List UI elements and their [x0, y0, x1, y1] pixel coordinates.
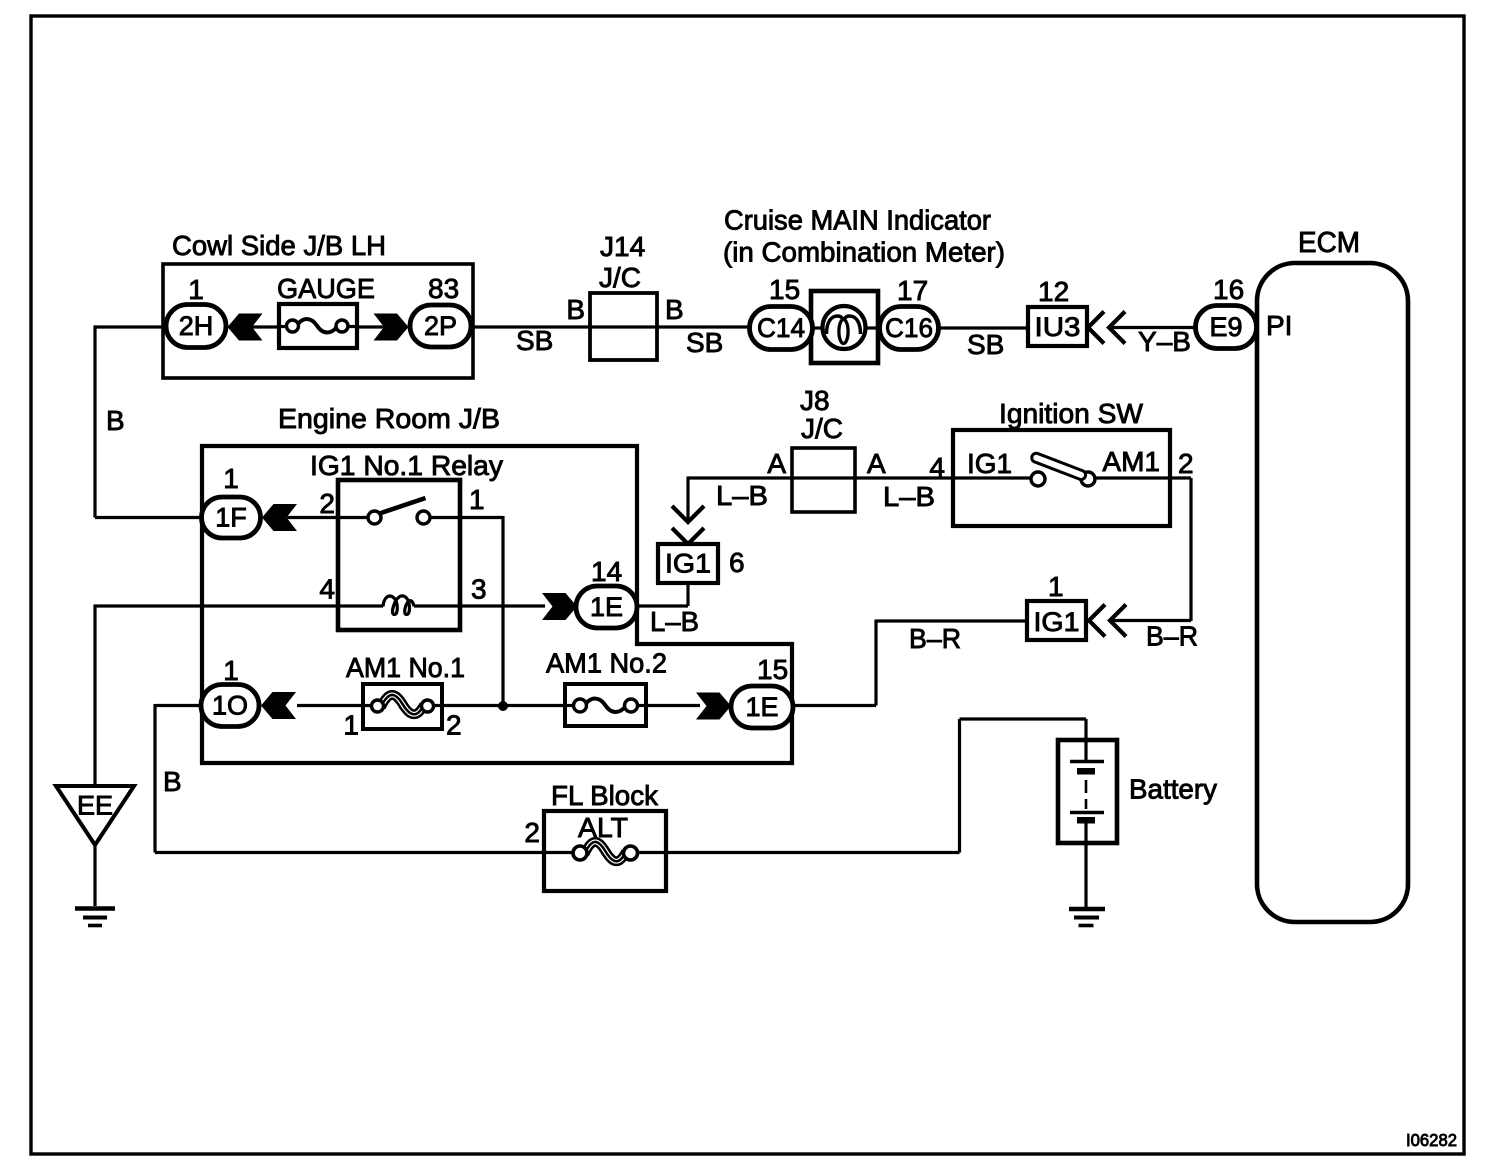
svg-text:SB: SB — [686, 327, 723, 358]
svg-text:J/C: J/C — [599, 262, 641, 293]
svg-text:B–R: B–R — [909, 623, 961, 654]
svg-text:83: 83 — [428, 273, 459, 304]
svg-text:A: A — [867, 448, 886, 479]
svg-text:(in Combination Meter): (in Combination Meter) — [723, 237, 1005, 268]
svg-text:GAUGE: GAUGE — [277, 273, 375, 304]
svg-text:1: 1 — [223, 463, 239, 494]
svg-text:I06282: I06282 — [1406, 1130, 1457, 1150]
svg-text:ALT: ALT — [578, 812, 628, 843]
svg-text:Ignition SW: Ignition SW — [999, 398, 1144, 429]
svg-text:2: 2 — [446, 710, 462, 741]
svg-text:L–B: L–B — [716, 480, 768, 511]
svg-text:C16: C16 — [885, 313, 933, 343]
svg-text:6: 6 — [729, 547, 745, 578]
svg-text:AM1 No.1: AM1 No.1 — [346, 652, 465, 683]
svg-text:IG1: IG1 — [665, 549, 711, 579]
svg-text:2: 2 — [524, 817, 540, 848]
svg-text:B: B — [106, 405, 125, 436]
svg-text:15: 15 — [757, 654, 788, 685]
svg-text:J14: J14 — [600, 231, 645, 262]
svg-text:15: 15 — [769, 274, 800, 305]
svg-text:SB: SB — [967, 329, 1004, 360]
svg-text:1O: 1O — [212, 691, 248, 721]
svg-text:14: 14 — [591, 556, 622, 587]
svg-text:Battery: Battery — [1129, 774, 1217, 805]
svg-text:1: 1 — [469, 484, 485, 515]
svg-text:AM1: AM1 — [1102, 446, 1160, 477]
svg-text:L–B: L–B — [883, 481, 935, 512]
svg-text:J8: J8 — [800, 385, 830, 416]
svg-text:FL Block: FL Block — [551, 780, 659, 811]
svg-text:E9: E9 — [1209, 312, 1242, 342]
svg-text:C14: C14 — [757, 313, 805, 343]
svg-text:1: 1 — [343, 710, 359, 741]
svg-text:1: 1 — [188, 274, 204, 305]
svg-text:ECM: ECM — [1298, 227, 1360, 259]
svg-text:2P: 2P — [424, 311, 457, 341]
svg-text:A: A — [767, 448, 786, 479]
svg-text:1E: 1E — [745, 692, 778, 722]
svg-text:L–B: L–B — [650, 606, 699, 637]
svg-text:IG1: IG1 — [1034, 607, 1080, 637]
svg-text:3: 3 — [471, 574, 487, 605]
svg-text:B: B — [665, 294, 684, 325]
svg-text:IG1: IG1 — [967, 448, 1012, 479]
svg-text:SB: SB — [516, 325, 553, 356]
svg-text:Engine Room J/B: Engine Room J/B — [278, 403, 500, 434]
svg-text:12: 12 — [1038, 276, 1069, 307]
svg-text:B: B — [163, 766, 182, 797]
svg-text:1E: 1E — [590, 592, 623, 622]
svg-text:IU3: IU3 — [1035, 312, 1081, 342]
svg-text:16: 16 — [1213, 274, 1244, 305]
svg-text:IG1 No.1 Relay: IG1 No.1 Relay — [310, 450, 503, 481]
svg-text:4: 4 — [929, 452, 945, 483]
svg-text:EE: EE — [77, 791, 113, 821]
svg-text:1: 1 — [1048, 571, 1064, 602]
svg-text:B: B — [566, 294, 585, 325]
svg-text:1: 1 — [223, 655, 239, 686]
svg-text:Y–B: Y–B — [1138, 326, 1191, 357]
svg-text:J/C: J/C — [801, 413, 843, 444]
svg-text:1F: 1F — [215, 503, 247, 533]
svg-text:2: 2 — [319, 488, 335, 519]
svg-text:2H: 2H — [179, 311, 214, 341]
svg-text:AM1 No.2: AM1 No.2 — [546, 648, 667, 679]
svg-text:4: 4 — [319, 574, 335, 605]
svg-text:17: 17 — [897, 275, 928, 306]
svg-text:2: 2 — [1178, 448, 1194, 479]
svg-text:Cowl Side J/B LH: Cowl Side J/B LH — [172, 230, 386, 261]
svg-text:B–R: B–R — [1146, 621, 1198, 652]
svg-text:PI: PI — [1266, 310, 1292, 341]
svg-text:Cruise MAIN Indicator: Cruise MAIN Indicator — [724, 205, 991, 236]
